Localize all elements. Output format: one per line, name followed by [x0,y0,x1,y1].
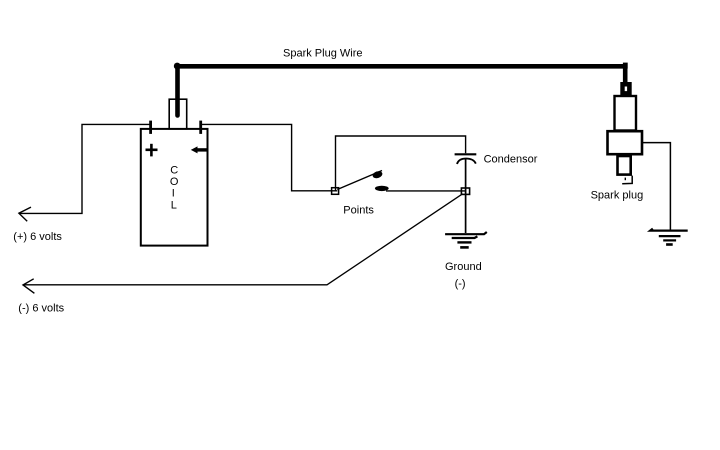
coil tower [169,99,187,129]
arrowhead: (-) 6 volts lead [23,279,34,294]
svg-text:Spark plug: Spark plug [591,189,644,201]
spark plug ground electrode [622,176,632,184]
svg-text:C: C [170,164,178,176]
spark plug insulator [615,96,637,131]
wire: condensor through node square down to ground symbol [465,159,467,233]
wire: diagonal from ground node to (-) supply [24,194,463,285]
wire: spark plug wire (thick HT lead from coil tower to plug) [174,63,628,116]
svg-text:L: L [171,199,177,211]
wire: points fixed contact to ground node [386,190,466,192]
wire: points node up and over to condensor [336,136,466,191]
svg-text:Condensor: Condensor [484,153,538,165]
coil body [141,129,208,246]
spark plug terminal cap [620,82,631,96]
spark plug electrode tip [624,178,626,181]
points: movable arm [337,171,382,190]
wire: spark plug body to right ground [643,143,671,230]
spark plug center electrode [618,156,631,175]
svg-text:O: O [170,176,179,188]
condensor top plate [455,153,477,155]
spark plug hex body [608,131,643,154]
wire: coil left terminal to (+) supply [20,124,151,213]
coil polarity arrow (points left) [191,146,209,153]
ground symbol (right, under spark plug wire) [650,229,688,245]
points: moving contact blob [372,170,384,179]
points: fixed contact blob [375,186,389,191]
coil polarity + symbol [146,144,158,157]
svg-text:(-): (-) [455,278,466,290]
wire: coil right terminal to points lower contact [201,124,338,190]
svg-text:I: I [172,187,175,199]
svg-text:Spark Plug Wire: Spark Plug Wire [283,47,362,59]
ground node square [461,188,469,194]
label: COIL (vertical) [170,164,179,211]
arrowhead: (+) 6 volts lead [19,207,31,221]
svg-text:Ground: Ground [445,261,482,273]
svg-text:Points: Points [343,205,374,217]
condensor curved plate [457,159,476,165]
coil left terminal tick [149,121,152,134]
points: left node square [332,188,339,195]
svg-text:(-) 6 volts: (-) 6 volts [18,303,64,315]
svg-text:(+) 6 volts: (+) 6 volts [13,231,62,243]
coil right terminal tick [199,121,202,134]
ground symbol (left, under condensor) [445,232,487,247]
